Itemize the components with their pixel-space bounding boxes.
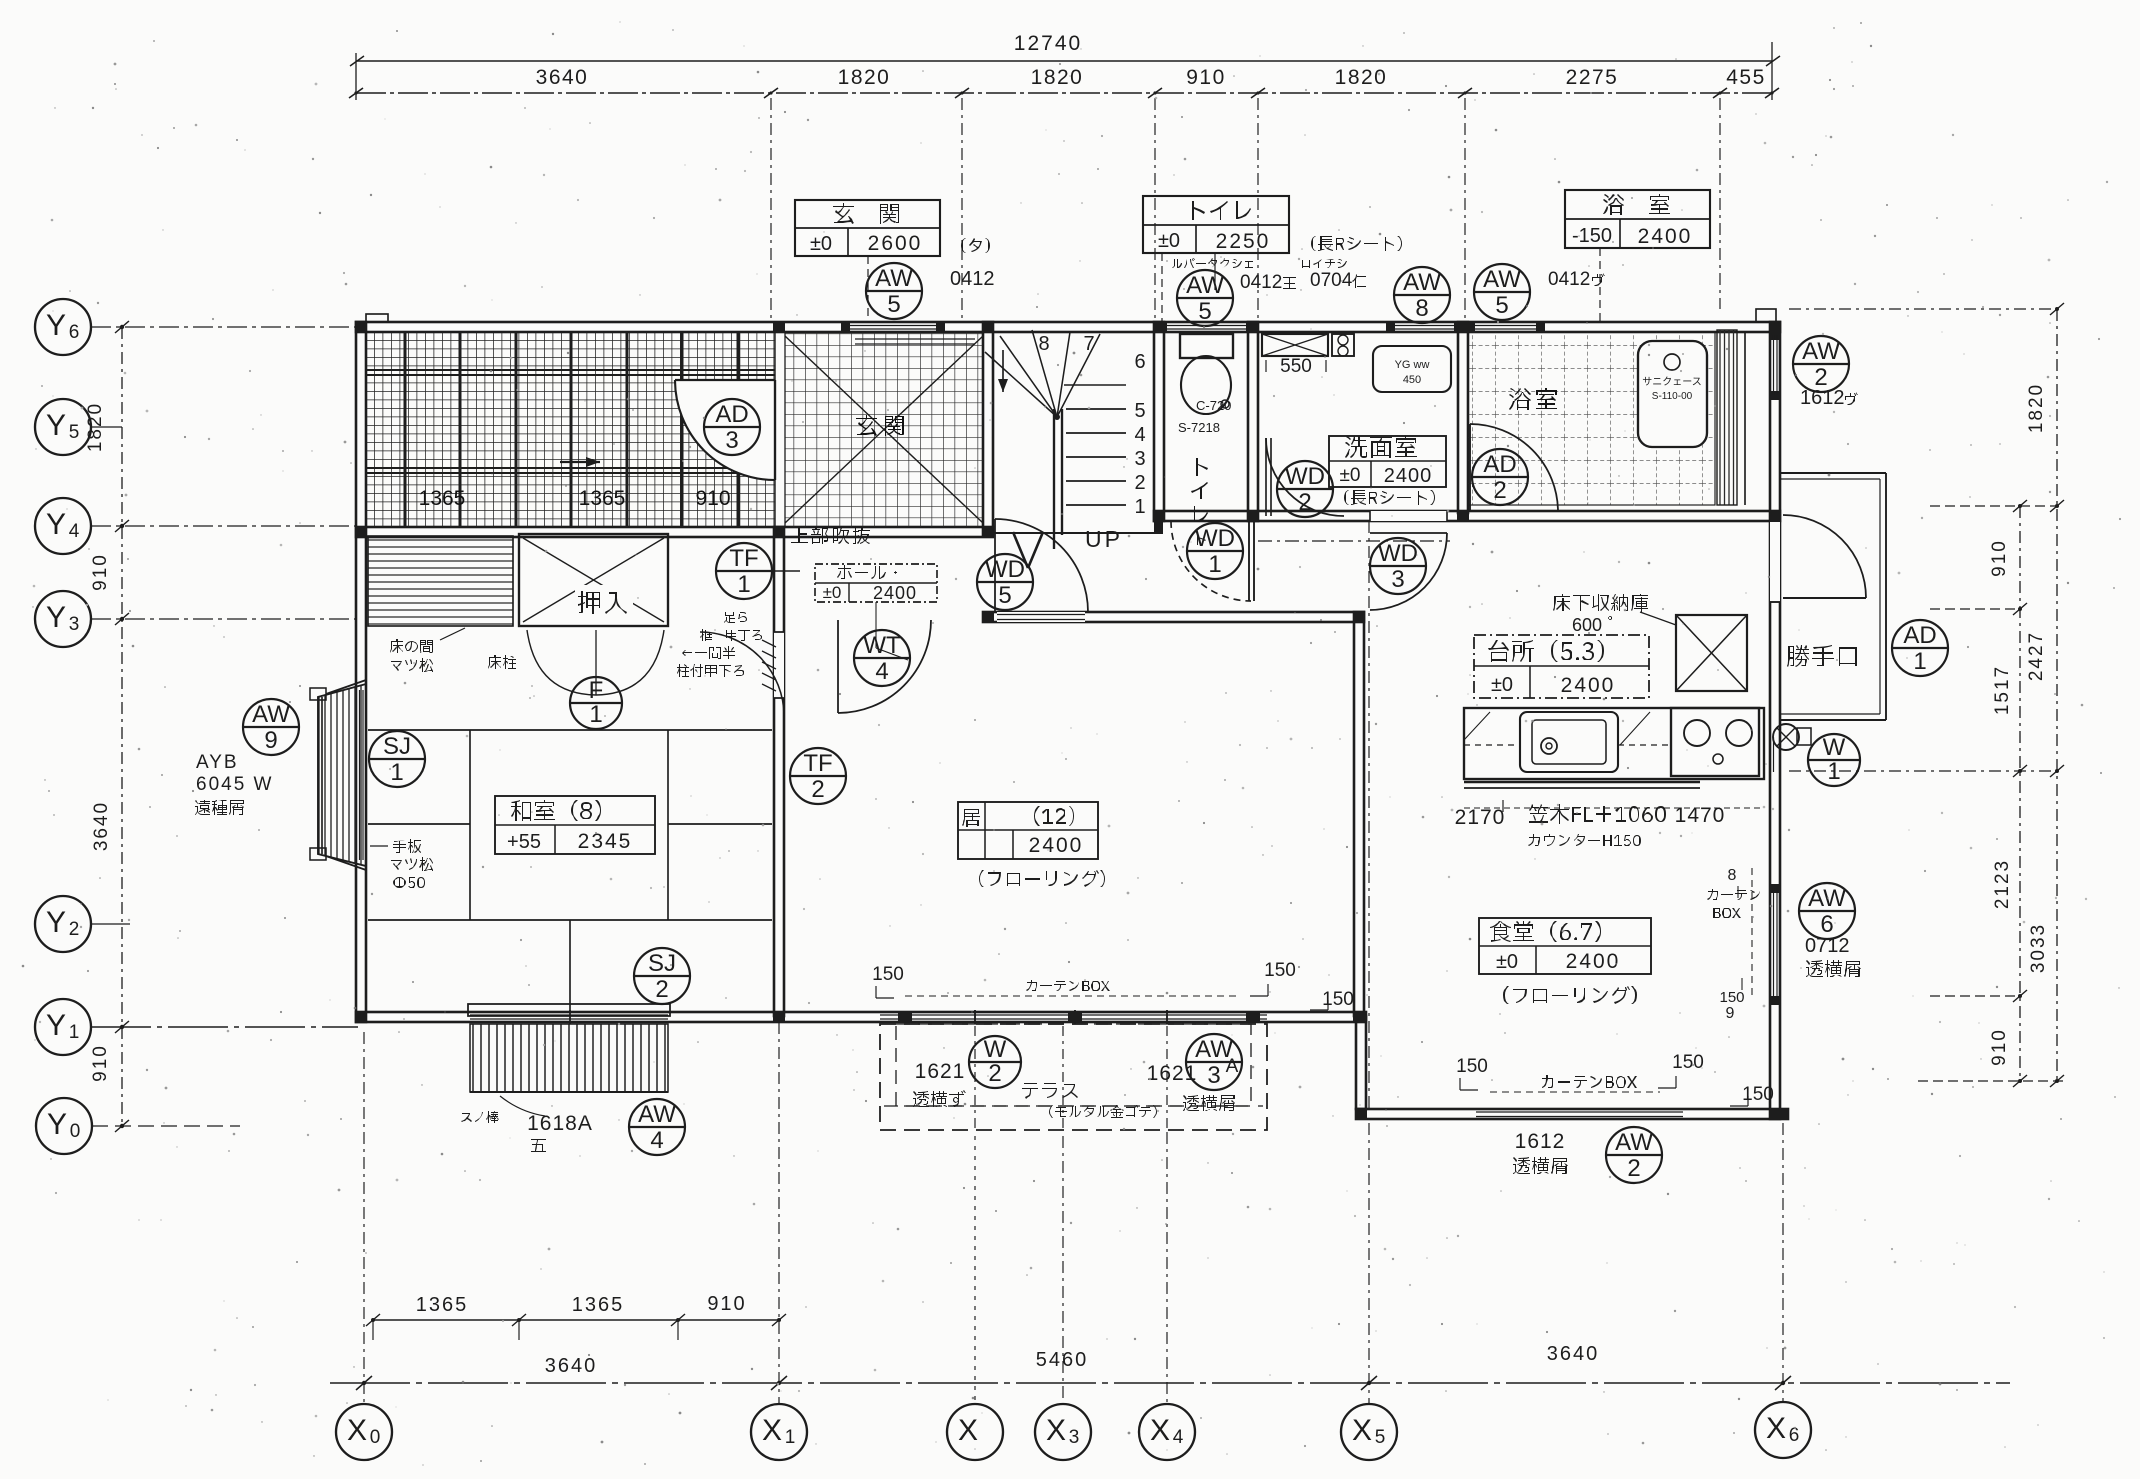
svg-text:2170: 2170 bbox=[1455, 806, 1506, 829]
svg-text:1: 1 bbox=[1208, 551, 1221, 578]
svg-text:2275: 2275 bbox=[1566, 66, 1619, 89]
svg-text:AYB: AYB bbox=[196, 752, 239, 773]
living north wall (hall south) bbox=[983, 612, 1364, 622]
toilet bowl bbox=[1181, 356, 1231, 414]
terrace label bbox=[1022, 1083, 1078, 1099]
svg-text:4: 4 bbox=[875, 658, 888, 685]
svg-text:3640: 3640 bbox=[91, 801, 112, 851]
svg-text:150: 150 bbox=[1456, 1056, 1488, 1077]
small projection at top left corner bbox=[366, 314, 388, 322]
svg-text:5: 5 bbox=[887, 291, 900, 318]
svg-text:±0: ±0 bbox=[1158, 230, 1180, 252]
washitsu west window lines bbox=[359, 690, 361, 860]
genkan room label (dark) bbox=[856, 415, 904, 436]
svg-text:AW: AW bbox=[1615, 1129, 1653, 1156]
svg-text:AW: AW bbox=[1403, 269, 1441, 296]
svg-text:5: 5 bbox=[1495, 292, 1508, 319]
west outer wall bbox=[356, 322, 366, 1022]
east wall window mid lines (bath AW2) bbox=[1773, 335, 1775, 395]
dining south wall bbox=[1356, 1109, 1788, 1119]
hall label box bbox=[815, 564, 937, 603]
svg-text:910: 910 bbox=[90, 553, 111, 591]
note near tatami step bbox=[711, 612, 747, 623]
grid circle X2 (partial label X) bbox=[947, 1404, 1003, 1460]
bath wall insulation strip bbox=[1717, 330, 1737, 505]
svg-text:3: 3 bbox=[1134, 448, 1145, 470]
veranda deck vertical slats bbox=[470, 1024, 668, 1092]
svg-text:±0: ±0 bbox=[1496, 951, 1518, 973]
svg-text:1612: 1612 bbox=[1800, 387, 1845, 409]
hall/kitchen wall bbox=[1354, 612, 1364, 1016]
kitchen side window W1 bbox=[1773, 737, 1775, 772]
stair west wall bbox=[983, 322, 993, 535]
bathroom label box bbox=[1565, 190, 1710, 248]
door WD2 arc bbox=[1266, 438, 1344, 516]
svg-text:SJ: SJ bbox=[383, 733, 411, 760]
ref circle AW2 south bbox=[1606, 1127, 1662, 1183]
svg-text:910: 910 bbox=[707, 1293, 746, 1315]
washroom/bath wall bbox=[1458, 322, 1468, 513]
washitsu east opening jamb bbox=[774, 632, 784, 698]
svg-text:1: 1 bbox=[1913, 648, 1926, 675]
small fixture box with circles bbox=[1332, 334, 1354, 356]
ref circle AW3 bbox=[1186, 1034, 1242, 1090]
svg-text:2427: 2427 bbox=[2026, 631, 2047, 681]
svg-text:X: X bbox=[1766, 1412, 1786, 1445]
svg-text:1365: 1365 bbox=[416, 1294, 469, 1316]
back door vestibule outline bbox=[1780, 473, 1886, 720]
dining south window lines bbox=[1476, 1111, 1683, 1113]
svg-text:910: 910 bbox=[695, 487, 730, 510]
pillar note right bbox=[682, 646, 735, 659]
svg-text:150: 150 bbox=[1264, 960, 1296, 981]
washroom sheet note bbox=[1344, 490, 1435, 505]
svg-text:1: 1 bbox=[1827, 758, 1840, 785]
ref circle AD2 bbox=[1472, 449, 1528, 505]
svg-text:6: 6 bbox=[1134, 351, 1145, 373]
window ref AW5 first bbox=[866, 263, 922, 319]
svg-text:±0: ±0 bbox=[1340, 465, 1361, 486]
svg-text:2: 2 bbox=[655, 976, 668, 1003]
svg-text:X: X bbox=[1046, 1414, 1066, 1447]
south terrace window lines bbox=[880, 1014, 1267, 1016]
ref circle SJ2 bbox=[634, 948, 690, 1004]
ref circle SJ1 bbox=[369, 731, 425, 787]
svg-text:3: 3 bbox=[1207, 1062, 1220, 1089]
svg-text:150: 150 bbox=[1322, 989, 1354, 1010]
grid circle X1 bbox=[751, 1404, 807, 1460]
svg-text:Y: Y bbox=[47, 1108, 67, 1141]
washitsu label box bbox=[495, 796, 655, 854]
kitchen label box bbox=[1474, 635, 1649, 698]
dining west wall below living bbox=[1356, 1016, 1366, 1109]
window ref AW2 east bbox=[1793, 336, 1849, 392]
door AD3 white quadrant cutout bbox=[675, 380, 775, 480]
svg-text:12740: 12740 bbox=[1014, 32, 1082, 55]
oshiire closet bbox=[519, 534, 668, 626]
svg-text:1820: 1820 bbox=[85, 402, 106, 452]
gas valve symbol bbox=[1773, 724, 1799, 750]
svg-text:AD: AD bbox=[1483, 451, 1516, 478]
svg-text:Y: Y bbox=[46, 409, 66, 442]
svg-text:0412: 0412 bbox=[1240, 272, 1282, 293]
svg-text:600: 600 bbox=[1572, 615, 1602, 635]
toilet tank bbox=[1180, 334, 1233, 358]
entrance sliding door lines bbox=[855, 338, 975, 340]
svg-text:8: 8 bbox=[1415, 295, 1428, 322]
terrace outline bbox=[880, 1024, 1267, 1130]
svg-text:UP: UP bbox=[1085, 526, 1123, 552]
svg-text:±0: ±0 bbox=[823, 583, 842, 602]
svg-text:+55: +55 bbox=[507, 831, 541, 853]
svg-text:1820: 1820 bbox=[838, 66, 891, 89]
ref circle AW9 bbox=[243, 699, 299, 755]
svg-text:サニクェース: サニクェース bbox=[1642, 376, 1701, 388]
svg-text:910: 910 bbox=[1989, 539, 2010, 577]
svg-text:5: 5 bbox=[998, 582, 1011, 609]
svg-text:150: 150 bbox=[1672, 1052, 1704, 1073]
katteguchi label bbox=[1787, 645, 1857, 667]
svg-text:Y: Y bbox=[46, 906, 66, 939]
svg-text:SJ: SJ bbox=[648, 950, 676, 977]
svg-text:0704: 0704 bbox=[1310, 270, 1353, 291]
svg-text:5: 5 bbox=[1198, 298, 1211, 325]
north outer wall bbox=[356, 322, 1780, 332]
curtain box east note bbox=[1707, 889, 1760, 900]
svg-text:±0: ±0 bbox=[810, 233, 832, 255]
porch hatched area with posts bbox=[366, 332, 775, 527]
svg-text:WT: WT bbox=[863, 632, 901, 659]
svg-text:X: X bbox=[958, 1414, 978, 1447]
kitchen counter bbox=[1464, 708, 1764, 779]
tokonoma annotations bbox=[390, 639, 433, 653]
svg-text:1: 1 bbox=[1134, 496, 1145, 518]
svg-text:AW: AW bbox=[875, 265, 913, 292]
hall top edge line bbox=[993, 532, 1154, 534]
svg-text:2400: 2400 bbox=[1029, 834, 1084, 857]
svg-text:6: 6 bbox=[69, 322, 80, 343]
stair rail double line bbox=[1053, 409, 1055, 549]
top dimension line row: 3640 1820 1820 910 1820 2275 455 bbox=[349, 66, 1779, 98]
stair direction arrow bbox=[1002, 350, 1004, 392]
svg-text:150: 150 bbox=[872, 964, 904, 985]
svg-text:4: 4 bbox=[1173, 1427, 1184, 1448]
svg-text:3033: 3033 bbox=[2028, 923, 2049, 973]
svg-text:WD: WD bbox=[1285, 463, 1325, 490]
wall corner posts bbox=[355, 321, 1789, 1120]
door WD5 arc into hall bbox=[995, 519, 1088, 612]
svg-text:X: X bbox=[762, 1414, 782, 1447]
svg-text:AW: AW bbox=[1195, 1036, 1233, 1063]
svg-text:1365: 1365 bbox=[572, 1294, 625, 1316]
svg-text:3640: 3640 bbox=[536, 66, 589, 89]
svg-text:3: 3 bbox=[1391, 566, 1404, 593]
svg-text:AW: AW bbox=[1802, 338, 1840, 365]
svg-text:C-720: C-720 bbox=[1196, 398, 1231, 413]
door WD3 arc bbox=[1370, 511, 1447, 521]
door AD1 arc (katteguchi) bbox=[1783, 515, 1866, 598]
kitchen stove bbox=[1671, 708, 1759, 776]
handrail note bbox=[393, 839, 421, 853]
svg-text:5: 5 bbox=[1134, 400, 1145, 422]
svg-text:1: 1 bbox=[390, 759, 403, 786]
svg-text:6: 6 bbox=[1820, 911, 1833, 938]
svg-text:0712: 0712 bbox=[1805, 935, 1850, 957]
bottom dimension row 1365 1365 910 bbox=[366, 1293, 786, 1340]
south main wall bbox=[356, 1012, 1366, 1022]
bottom dimension row 3640 5460 3640 bbox=[330, 1343, 2010, 1390]
svg-text:2400: 2400 bbox=[1384, 465, 1433, 487]
svg-text:910: 910 bbox=[1989, 1028, 2010, 1066]
svg-text:4: 4 bbox=[1134, 424, 1145, 446]
left vertical dimension line with ticks bbox=[85, 321, 129, 1132]
ref circle WD3 bbox=[1370, 538, 1426, 594]
svg-text:910: 910 bbox=[1186, 66, 1226, 89]
door WD1 arc and leaf bbox=[1171, 521, 1251, 601]
svg-text:TF: TF bbox=[729, 545, 758, 572]
north wall window lines bbox=[845, 325, 940, 327]
svg-text:AW: AW bbox=[1483, 266, 1521, 293]
entrance hatched floor (genkan) bbox=[785, 332, 983, 527]
svg-text:1517: 1517 bbox=[1992, 665, 2013, 715]
ref circle F1 bbox=[570, 677, 622, 729]
ref circle WD2 bbox=[1277, 461, 1333, 517]
tokonoma striped floor bbox=[368, 536, 513, 626]
svg-text:910: 910 bbox=[90, 1044, 111, 1082]
svg-text:1365: 1365 bbox=[579, 487, 626, 510]
svg-text:2: 2 bbox=[1627, 1155, 1640, 1182]
svg-text:WD: WD bbox=[1378, 540, 1418, 567]
svg-text:X: X bbox=[1150, 1414, 1170, 1447]
genkan label box bbox=[795, 200, 940, 256]
east outer wall bbox=[1770, 322, 1780, 1119]
grid circle Y5 bbox=[35, 399, 91, 455]
small projection at top right bbox=[1756, 309, 1776, 322]
svg-text:1820: 1820 bbox=[2026, 383, 2047, 433]
ref circle AW4 bbox=[629, 1099, 685, 1155]
window end blocks bbox=[841, 321, 1781, 1005]
toilet room label vertical bbox=[1196, 458, 1208, 476]
joubu fukinuke note bbox=[791, 527, 870, 544]
svg-text:Y: Y bbox=[46, 508, 66, 541]
stair treads bbox=[1064, 385, 1126, 505]
svg-text:2600: 2600 bbox=[868, 232, 923, 255]
top extension lines bbox=[770, 98, 772, 322]
svg-text:2400: 2400 bbox=[1566, 950, 1621, 973]
X grid chain lines bbox=[363, 1032, 365, 1404]
svg-text:5460: 5460 bbox=[1036, 1349, 1089, 1371]
svg-text:1365: 1365 bbox=[419, 487, 466, 510]
svg-text:2: 2 bbox=[1493, 477, 1506, 504]
svg-text:Y: Y bbox=[46, 601, 66, 634]
washroom label box senmenshitsu bbox=[1329, 436, 1446, 487]
window ref AW8 bbox=[1394, 267, 1450, 323]
svg-text:3: 3 bbox=[725, 427, 738, 454]
svg-text:1612: 1612 bbox=[1515, 1130, 1566, 1153]
svg-text:Y: Y bbox=[46, 309, 66, 342]
small hatch marks near TF1 door bbox=[762, 640, 776, 691]
svg-text:2: 2 bbox=[988, 1060, 1001, 1087]
svg-text:W: W bbox=[984, 1036, 1007, 1063]
svg-text:WD: WD bbox=[985, 556, 1025, 583]
grid circle Y0 bbox=[36, 1098, 92, 1154]
svg-text:150: 150 bbox=[1742, 1084, 1774, 1105]
window ref AW5 second bbox=[1177, 270, 1233, 326]
svg-text:2400: 2400 bbox=[1638, 225, 1693, 248]
svg-text:2: 2 bbox=[69, 919, 80, 940]
toilet west wall bbox=[1154, 322, 1164, 521]
svg-text:1: 1 bbox=[785, 1427, 796, 1448]
dining east window AW6 bbox=[1773, 888, 1775, 1000]
counter front edge bbox=[1464, 781, 1700, 783]
overall top dimension line 12740 bbox=[350, 32, 1780, 100]
svg-text:3: 3 bbox=[69, 614, 80, 635]
toilet label box bbox=[1143, 196, 1289, 253]
svg-text:S-110-00: S-110-00 bbox=[1652, 391, 1693, 402]
svg-text:450: 450 bbox=[1403, 374, 1421, 386]
ref circle WD1 bbox=[1187, 523, 1243, 579]
ref circle TF2 bbox=[790, 748, 846, 804]
svg-text:2345: 2345 bbox=[578, 830, 633, 853]
ref circle AD1 bbox=[1892, 620, 1948, 676]
svg-text:1820: 1820 bbox=[1031, 66, 1084, 89]
ref circle WT4 bbox=[854, 630, 910, 686]
porch bottom wall bbox=[356, 527, 993, 537]
svg-text:W: W bbox=[1823, 734, 1846, 761]
grid circle Y1 bbox=[35, 999, 91, 1055]
ref circle AW6 bbox=[1799, 883, 1855, 939]
grid circle Y6 bbox=[35, 299, 91, 355]
svg-text:1: 1 bbox=[589, 701, 602, 728]
ref circle TF1 bbox=[716, 543, 772, 599]
svg-text:1470: 1470 bbox=[1675, 804, 1726, 827]
svg-text:AW: AW bbox=[1186, 272, 1224, 299]
ref circle W1 bbox=[1808, 734, 1860, 786]
svg-text:455: 455 bbox=[1726, 66, 1766, 89]
svg-text:550: 550 bbox=[1280, 356, 1312, 377]
svg-text:X: X bbox=[347, 1414, 367, 1447]
svg-text:0412: 0412 bbox=[950, 268, 995, 290]
svg-text:0: 0 bbox=[370, 1427, 381, 1448]
porch arrow mark bbox=[560, 461, 600, 463]
svg-text:AW: AW bbox=[638, 1101, 676, 1128]
svg-text:150: 150 bbox=[1719, 989, 1744, 1006]
dining label box bbox=[1479, 918, 1651, 974]
svg-text:9: 9 bbox=[1726, 1005, 1735, 1022]
bathtub bbox=[1638, 341, 1707, 447]
washitsu south window lines bbox=[470, 1014, 668, 1016]
svg-text:AW: AW bbox=[1808, 885, 1846, 912]
svg-text:3640: 3640 bbox=[1547, 1343, 1600, 1365]
grid circle Y3 bbox=[35, 591, 91, 647]
ref circle W2 terrace bbox=[969, 1036, 1021, 1088]
door AD2 arc bbox=[1470, 424, 1558, 512]
door WT4 arc bbox=[838, 620, 931, 713]
wall between washitsu and hall/living bbox=[774, 527, 784, 1016]
svg-text:±0: ±0 bbox=[1491, 674, 1513, 696]
svg-text:6045 W: 6045 W bbox=[196, 774, 273, 795]
grid circle Y2 bbox=[35, 896, 91, 952]
ref circle WD5 bbox=[977, 554, 1033, 610]
svg-text:1618A: 1618A bbox=[527, 1112, 593, 1135]
svg-text:WD: WD bbox=[1195, 525, 1235, 552]
svg-text:AD: AD bbox=[1903, 622, 1936, 649]
svg-text:2400: 2400 bbox=[873, 583, 917, 603]
svg-text:2123: 2123 bbox=[1992, 859, 2013, 909]
window ref AW5 third bbox=[1474, 264, 1530, 320]
grid circle Y4 bbox=[35, 498, 91, 554]
west bay handrail bbox=[310, 680, 366, 870]
svg-text:0: 0 bbox=[70, 1121, 81, 1142]
stair winder fan bbox=[985, 330, 1100, 420]
svg-text:5: 5 bbox=[1375, 1427, 1386, 1448]
svg-text:TF: TF bbox=[803, 750, 832, 777]
svg-text:3: 3 bbox=[1069, 1427, 1080, 1448]
svg-text:8: 8 bbox=[1038, 333, 1049, 355]
right dimension connectors bbox=[1789, 308, 2057, 310]
kitchen sink bbox=[1520, 712, 1618, 772]
Y grid chain lines bbox=[91, 326, 356, 328]
svg-text:4: 4 bbox=[650, 1127, 663, 1154]
veranda handrail bbox=[468, 1004, 670, 1016]
svg-text:1: 1 bbox=[737, 571, 750, 598]
svg-text:F: F bbox=[589, 677, 604, 704]
fusuma double door arcs bbox=[527, 630, 596, 695]
grid circle X6 bbox=[1755, 1402, 1811, 1458]
svg-text:8: 8 bbox=[1728, 867, 1737, 884]
svg-text:1820: 1820 bbox=[1335, 66, 1388, 89]
door WD5 threshold opening bbox=[997, 612, 1085, 622]
svg-text:Y: Y bbox=[46, 1009, 66, 1042]
svg-text:AW: AW bbox=[252, 701, 290, 728]
bathroom tiled floor bbox=[1468, 332, 1715, 505]
svg-text:2400: 2400 bbox=[1561, 674, 1616, 697]
ref circle AD3 bbox=[704, 399, 760, 455]
washing machine box bbox=[1262, 334, 1328, 356]
bathroom label in room bbox=[1509, 388, 1557, 410]
svg-text:1621: 1621 bbox=[1147, 1062, 1198, 1085]
svg-text:X: X bbox=[1352, 1414, 1372, 1447]
svg-text:YG ww: YG ww bbox=[1395, 359, 1430, 371]
grid circle X3 bbox=[1035, 1404, 1091, 1460]
svg-text:1621: 1621 bbox=[915, 1060, 966, 1083]
grid circle X5 bbox=[1341, 1404, 1397, 1460]
svg-text:2: 2 bbox=[811, 776, 824, 803]
svg-text:1: 1 bbox=[69, 1022, 80, 1043]
right inner dimension line 910 1517 2123 910 bbox=[1989, 500, 2027, 1087]
svg-text:S-7218: S-7218 bbox=[1178, 420, 1220, 435]
tatami lines bbox=[368, 730, 772, 1012]
svg-text:5: 5 bbox=[69, 422, 80, 443]
floor storage hatch square bbox=[1676, 615, 1747, 691]
sanitary south wall bbox=[1154, 511, 1780, 521]
svg-text:7: 7 bbox=[1083, 333, 1094, 355]
svg-text:2: 2 bbox=[1134, 472, 1145, 494]
grid circle X4 bbox=[1139, 1404, 1195, 1460]
svg-text:AD: AD bbox=[715, 401, 748, 428]
svg-text:-150: -150 bbox=[1572, 225, 1612, 247]
svg-text:9: 9 bbox=[264, 727, 277, 754]
svg-text:0412: 0412 bbox=[1548, 269, 1590, 290]
svg-text:2: 2 bbox=[1298, 489, 1311, 516]
svg-text:4: 4 bbox=[69, 521, 80, 542]
right outer dimension line 1820 2427 3033 bbox=[2026, 303, 2064, 1087]
floor storage hatch note bbox=[1553, 594, 1648, 612]
back door opening bbox=[1770, 511, 1780, 602]
living room label box bbox=[958, 802, 1098, 859]
kitchen chain X5 bbox=[1368, 521, 1370, 1109]
svg-text:2250: 2250 bbox=[1216, 230, 1271, 253]
